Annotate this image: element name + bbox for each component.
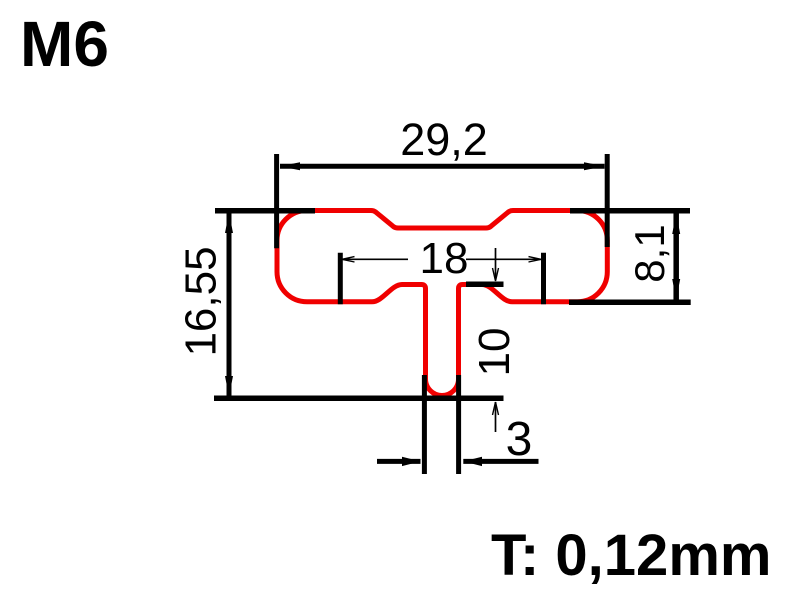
reference line bottom (16,55) (214, 396, 504, 402)
dimension 3 line right (463, 459, 538, 464)
dimension 16,55 arrow top (225, 212, 233, 233)
dimension 18 arrow left (342, 257, 355, 262)
extension line 3 right (stem wall) (456, 375, 461, 474)
dimension 18 line right (466, 258, 542, 260)
reference line top-right (570, 208, 690, 214)
extension line 29,2 left (274, 154, 279, 248)
profile outline (red sheet cross-section) (277, 210, 607, 395)
dimension 3 arrow left (402, 457, 421, 466)
dimension 3 arrow right (463, 457, 482, 466)
svg-text:3: 3 (506, 413, 533, 466)
svg-text:29,2: 29,2 (400, 114, 488, 165)
dimension 8,1 arrow bottom (672, 279, 680, 300)
dimension 10 lower arrow (495, 402, 497, 432)
extension line 3 left (stem wall) (422, 375, 427, 474)
svg-text:M6: M6 (20, 8, 109, 80)
svg-text:16,55: 16,55 (177, 246, 226, 356)
svg-text:T: 0,12mm: T: 0,12mm (491, 523, 771, 588)
extension line 18 right (lobe centerline) (541, 253, 546, 305)
svg-text:10: 10 (470, 328, 519, 377)
dimension 3 line left (377, 459, 421, 464)
dimension 8,1 arrow top (672, 213, 680, 234)
dimension 29,2 arrow left (280, 162, 300, 170)
reference line shelf (10) (466, 282, 504, 288)
dimension 18 arrow right (529, 257, 542, 262)
svg-text:18: 18 (420, 234, 469, 283)
dimension 8,1 line (673, 213, 679, 300)
dimension 29,2 line (280, 164, 605, 169)
extension line 18 left (lobe centerline) (338, 253, 343, 305)
dimension 16,55 arrow bottom (225, 376, 233, 397)
svg-text:8,1: 8,1 (626, 224, 673, 282)
reference line bottom-right (8,1) (569, 300, 691, 306)
dimension 29,2 arrow right (584, 162, 605, 170)
reference line top-left (215, 208, 315, 214)
dimension 10 upper arrow (495, 248, 497, 280)
extension line 29,2 right (605, 154, 610, 247)
dimension 16,55 line (227, 213, 232, 396)
dimension 18 line left (343, 258, 408, 260)
